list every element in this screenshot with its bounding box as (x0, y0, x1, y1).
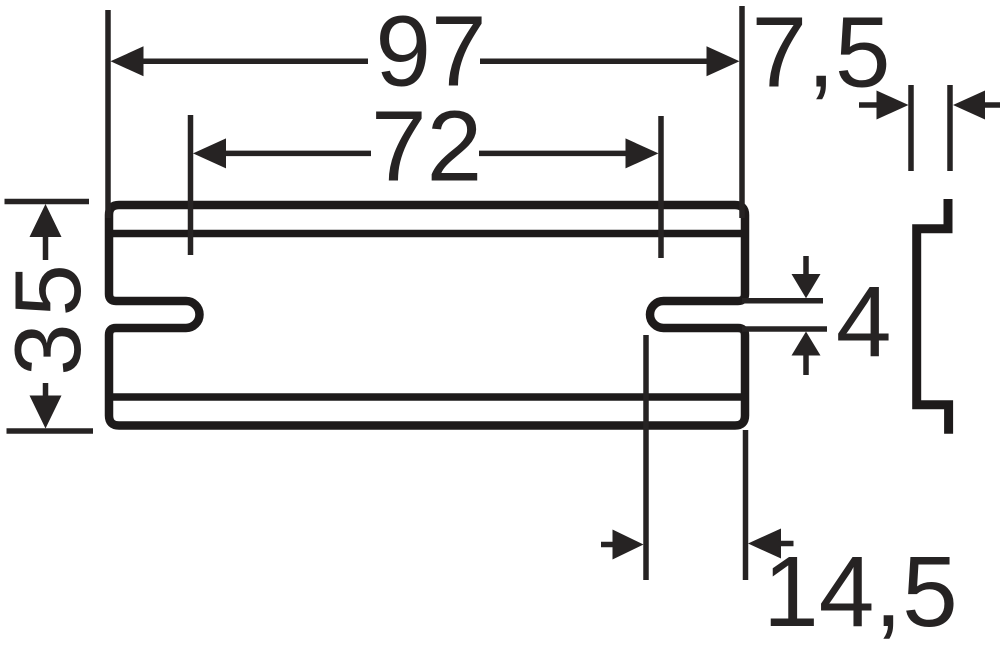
dim 7,5: left gauge line (908, 85, 914, 171)
dim 4: down arrow (792, 256, 821, 298)
inner top line (106, 230, 748, 238)
dim 7,5: right gauge line (947, 85, 953, 171)
dim 72: dimension line with arrowheads (193, 138, 659, 168)
svg-text:35: 35 (0, 257, 100, 376)
dim 14,5: left extension line (643, 335, 649, 580)
svg-text:4: 4 (836, 266, 892, 378)
dim 4: bottom extension line (742, 326, 827, 332)
dim 14,5: right-pointing arrow (601, 530, 644, 560)
dim 35: bottom tick (7, 428, 94, 434)
svg-text:72: 72 (371, 91, 482, 203)
dim 35: up arrow (30, 204, 62, 260)
dim 97: dimension line with arrowheads (111, 46, 740, 76)
dim 35: top tick (5, 199, 90, 205)
dim 97: right extension line (739, 6, 745, 218)
dim 14,5: left-pointing arrow (748, 529, 794, 559)
side profile (917, 199, 949, 434)
dim 7,5: right-pointing arrow (859, 91, 909, 120)
dim 72: right extension line (658, 116, 664, 258)
dim 4: up arrow (792, 332, 821, 376)
dim 7,5: left-pointing arrow (953, 91, 1000, 120)
dim 14,5: right extension line (743, 430, 749, 580)
dim 35: down arrow (30, 383, 62, 429)
svg-text:14,5: 14,5 (763, 536, 958, 646)
dim 72: left extension line (188, 115, 194, 255)
inner bottom line (106, 393, 748, 401)
DIN rail front view outline (109, 205, 745, 426)
dim 4: top extension line (742, 298, 823, 304)
svg-text:7,5: 7,5 (751, 0, 890, 109)
dim 97: left extension line (105, 10, 111, 218)
